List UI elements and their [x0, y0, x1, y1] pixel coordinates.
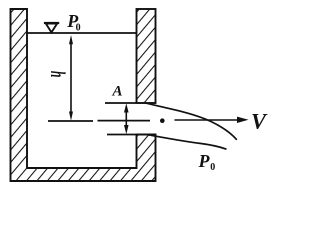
svg-text:0: 0 — [76, 23, 81, 34]
svg-text:0: 0 — [210, 162, 215, 173]
svg-text:A: A — [112, 84, 123, 100]
svg-text:V: V — [251, 109, 268, 134]
svg-text:h: h — [46, 71, 69, 78]
svg-text:P: P — [198, 151, 211, 171]
